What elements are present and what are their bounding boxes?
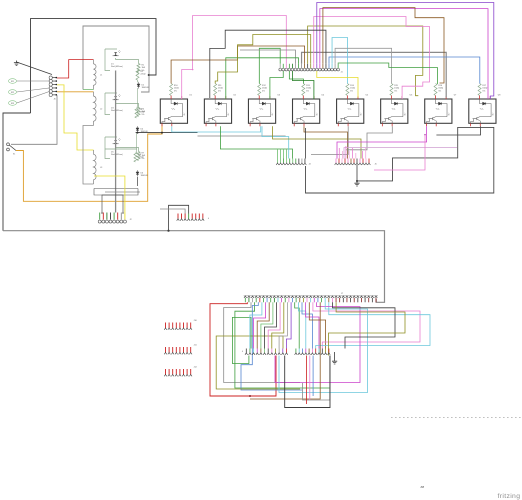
svg-text:5%: 5% <box>438 90 441 92</box>
svg-text:220Ω: 220Ω <box>140 112 145 114</box>
svg-text:R10: R10 <box>174 85 179 87</box>
wire gray-mid <box>311 126 348 154</box>
svg-text:S1: S1 <box>13 154 15 156</box>
wire be4 brown <box>309 302 325 348</box>
wire olive-mid <box>273 126 362 158</box>
junction bus1 <box>137 132 139 134</box>
wire j1-p4 dgreen dn <box>292 71 314 99</box>
pin-header J4 10-pin <box>276 159 306 166</box>
wire ir3-conn <box>17 91 50 103</box>
wire greenbundle-1 <box>280 149 282 159</box>
svg-text:R16: R16 <box>438 85 443 87</box>
svg-text:5%: 5% <box>306 90 309 92</box>
svg-text:U5: U5 <box>366 95 369 97</box>
svg-text:150Ω: 150Ω <box>482 88 487 90</box>
wire j1-p18 gray hk <box>335 48 392 83</box>
svg-text:J5: J5 <box>375 164 378 166</box>
wire bd1 mag <box>254 302 266 348</box>
diode D2 <box>137 82 140 88</box>
wire j1-p12 purple <box>317 3 494 100</box>
wire be7 mag2 <box>275 302 360 382</box>
wire j1-p7 gray long <box>302 52 447 97</box>
wire j1-p16 blue <box>329 57 480 84</box>
wire j1-p0 green <box>259 48 280 83</box>
wire bx-pink <box>309 356 311 401</box>
svg-text:L3: L3 <box>100 167 103 169</box>
wire pinkbundle-0 <box>338 148 340 159</box>
wire j3-feed2 <box>160 209 185 214</box>
resistor R13 150 <box>302 84 312 96</box>
junction bt-red <box>249 395 251 397</box>
wire cyan-under <box>172 126 261 132</box>
wire j2-box-top <box>94 188 138 190</box>
svg-text:J11: J11 <box>194 345 198 347</box>
svg-text:R7: R7 <box>142 153 145 155</box>
pin-header J9 11-pin <box>295 349 331 355</box>
junction inner-gray stage1 <box>148 74 150 76</box>
junction on long-bus <box>167 230 169 232</box>
pin-header J12 8-pin <box>164 369 192 376</box>
svg-text:IR2: IR2 <box>11 92 14 94</box>
resistor R2 220 <box>136 69 139 80</box>
svg-text:R17: R17 <box>482 85 487 87</box>
wire pinkbundle-5 <box>355 153 357 159</box>
pin-header J1 20-pin <box>279 64 340 71</box>
optocoupler U4 <box>293 96 320 127</box>
svg-text:J12: J12 <box>194 367 198 369</box>
svg-text:R15: R15 <box>394 85 399 87</box>
wire bd0 cyan <box>250 302 262 348</box>
resistor R8 220 <box>134 152 137 162</box>
wire j1-p13 magenta <box>320 9 488 99</box>
svg-text:Red (633nm): Red (633nm) <box>111 154 123 156</box>
svg-text:D3: D3 <box>111 108 114 110</box>
svg-text:L2: L2 <box>100 109 103 111</box>
wire pinkbundle-6 <box>361 151 363 159</box>
wire j1-p11 pink2 <box>314 17 430 100</box>
wire bus-light <box>198 135 286 137</box>
wire j9-gnd <box>334 352 336 359</box>
svg-text:R1: R1 <box>142 65 145 67</box>
wire bt-green2 <box>232 317 251 363</box>
svg-text:5%: 5% <box>218 90 221 92</box>
svg-text:D1: D1 <box>111 64 114 66</box>
wire stage-feeder <box>115 71 117 213</box>
svg-text:150Ω: 150Ω <box>438 88 443 90</box>
wire be2 blue <box>302 302 312 348</box>
svg-text:817: 817 <box>272 113 274 116</box>
diode D6 <box>136 170 139 176</box>
svg-text:J4: J4 <box>309 164 312 166</box>
wire bd2 brown <box>257 302 269 348</box>
inductor L2 <box>94 92 97 126</box>
wire greenbundle-2 <box>283 149 285 159</box>
svg-text:1N4148: 1N4148 <box>141 175 149 177</box>
wire be8 cyan3 <box>279 302 368 392</box>
svg-text:150Ω: 150Ω <box>350 88 355 90</box>
wire ir1-conn <box>17 80 50 82</box>
wire greenbundle-3 <box>286 149 288 159</box>
ground GND2 <box>354 181 359 186</box>
svg-text:220Ω: 220Ω <box>141 74 146 76</box>
wire j1-p15 black st <box>210 30 326 98</box>
resistor R12 150 <box>258 84 268 96</box>
wire stage-col <box>137 88 139 107</box>
ground GND3 <box>332 359 337 364</box>
svg-text:U1: U1 <box>189 95 192 97</box>
svg-text:5%: 5% <box>482 90 485 92</box>
svg-text:U3: U3 <box>277 95 280 97</box>
svg-text:fritzing: fritzing <box>498 493 521 500</box>
svg-text:817: 817 <box>404 113 406 116</box>
svg-text:R14: R14 <box>350 85 355 87</box>
wire ir2-conn <box>17 88 50 92</box>
wire orange-long <box>16 123 162 201</box>
switch SW1 <box>7 143 10 146</box>
wire pinkbundle-4 <box>352 148 354 159</box>
wire j1-p1 green dn <box>270 71 283 99</box>
wire j1-p14 brown2 <box>323 8 444 83</box>
wire j1-p10 olive <box>215 35 311 84</box>
wire gnd1-to-connector <box>17 62 53 75</box>
wire yellow-L3 <box>57 85 94 150</box>
wire bt-olive <box>216 336 300 389</box>
svg-text:150Ω: 150Ω <box>262 88 267 90</box>
wire j1-p5 gray r2 <box>240 50 295 64</box>
svg-text:D5: D5 <box>111 152 114 154</box>
wire j3-feed1 <box>169 205 189 230</box>
wire j1-p2 pink big <box>182 16 287 100</box>
svg-text:IR3: IR3 <box>11 103 14 105</box>
connector J6 6-pin <box>49 76 57 97</box>
svg-text:Red (633nm): Red (633nm) <box>111 66 123 68</box>
wire lavender-147 <box>344 148 457 159</box>
wire green-L1-bottom <box>83 89 94 91</box>
pin-header J8 12-pin <box>245 349 288 355</box>
wire bd6 olive <box>272 302 284 348</box>
wire net-inner-gray <box>83 26 149 92</box>
ground GND1 <box>14 61 19 66</box>
wire j1-p9 olive2 <box>308 26 423 96</box>
diode D4 <box>136 126 139 132</box>
pin-header J3 8-pin <box>177 214 204 221</box>
wire bt-red <box>210 302 276 396</box>
wire pinkbundle-7 <box>365 148 367 159</box>
svg-text:R11: R11 <box>218 85 222 87</box>
svg-text:D4: D4 <box>141 129 144 131</box>
wire bx-blue <box>312 356 314 397</box>
resistor R15 150 <box>390 84 400 96</box>
resistor R11 150 <box>214 84 224 96</box>
svg-text:J6: J6 <box>54 99 57 101</box>
svg-text:U2: U2 <box>233 95 236 97</box>
svg-text:817: 817 <box>316 113 318 116</box>
LED IR2 <box>9 90 17 95</box>
resistor R10 150 <box>170 84 180 96</box>
wire d6-bus <box>137 177 139 186</box>
pin-header J10 8-pin <box>164 323 192 330</box>
optocoupler U7 <box>425 96 452 127</box>
svg-text:5%: 5% <box>174 90 177 92</box>
wire be11 black <box>333 302 396 348</box>
wire pinkbundle-2 <box>345 146 347 159</box>
wire pinkbundle-3 <box>348 151 350 159</box>
LED IR1 <box>9 79 17 84</box>
wire bt-green <box>235 302 330 388</box>
wire j1-p8 brown st <box>171 46 305 84</box>
inductor L3 <box>94 150 97 184</box>
wire j7-busline <box>244 295 378 297</box>
svg-text:817: 817 <box>184 113 186 116</box>
wire bus-dark <box>136 132 198 134</box>
wire j5-gnd <box>356 165 358 181</box>
wire j2-yellow <box>94 176 125 213</box>
svg-text:J1: J1 <box>341 72 344 74</box>
svg-text:IR1: IR1 <box>11 81 14 83</box>
wire be0 green <box>295 302 300 348</box>
wire j2-box-l <box>94 189 138 196</box>
svg-text:817: 817 <box>449 113 451 116</box>
wire brown-mid <box>304 126 348 158</box>
resistor R16 150 <box>434 84 444 96</box>
wire net-left-edge <box>3 113 31 231</box>
wire j2-box <box>102 195 123 213</box>
pin-header J7 37-pin <box>244 296 377 302</box>
junction bus2 <box>161 132 163 134</box>
resistor R5 220 <box>135 107 138 118</box>
arrow j2-p2 <box>101 212 103 214</box>
svg-text:817: 817 <box>228 113 230 116</box>
svg-text:817: 817 <box>493 113 495 116</box>
pin-header J11 8-pin <box>164 347 192 354</box>
LED D3 stage2 <box>105 93 146 117</box>
wire black-mid <box>436 126 480 135</box>
wire bd3 green <box>261 302 273 348</box>
svg-text:▲: ▲ <box>208 217 210 220</box>
wire be9 brown2 <box>250 302 320 399</box>
wire black-vert-a <box>305 128 307 159</box>
svg-text:D2: D2 <box>142 85 145 87</box>
junction j5-gnd <box>356 180 358 182</box>
wire long-bus <box>3 231 385 303</box>
wire pinkbundle-1 <box>342 151 344 159</box>
wire bd8 purple <box>286 302 291 348</box>
wire greenbundle-0 <box>277 149 279 159</box>
optocoupler U8 <box>469 96 496 127</box>
wire red-L1 <box>57 60 94 78</box>
pin-header J5 12-pin <box>335 159 371 166</box>
wire bt-gray <box>224 302 300 382</box>
wire bt-blackbox <box>285 356 330 408</box>
wire net-top-outer <box>31 19 157 113</box>
wire black-long-193 <box>306 127 494 193</box>
svg-text:817: 817 <box>360 113 362 116</box>
svg-text:Red (633nm): Red (633nm) <box>111 110 123 112</box>
wire gray-L2L3-bottom <box>83 126 94 185</box>
wire j1-p17 cyan <box>332 38 347 84</box>
wire pin6-switch <box>11 95 57 144</box>
svg-text:5%: 5% <box>394 90 397 92</box>
wire be1 cyan <box>298 302 305 348</box>
svg-text:4: 4 <box>242 351 244 353</box>
wire bd4 black <box>265 302 277 348</box>
wire j1-p6 green p2 <box>226 58 299 99</box>
svg-text:150Ω: 150Ω <box>174 88 179 90</box>
LED D5 stage3 <box>105 137 146 161</box>
svg-text:5%: 5% <box>350 90 353 92</box>
pin-header J2 8-pin <box>98 213 126 224</box>
optocoupler U6 <box>381 96 408 127</box>
optocoupler U2 <box>204 96 231 127</box>
LED D1 stage1 <box>105 49 146 73</box>
wire cyan-mid2 <box>262 126 289 158</box>
wire bt-blue <box>241 302 302 390</box>
svg-text:R13: R13 <box>306 85 311 87</box>
arrow j2-p7 <box>122 212 124 214</box>
svg-text:J7: J7 <box>341 293 344 295</box>
svg-text:150Ω: 150Ω <box>218 88 223 90</box>
wire pink-mid <box>374 135 425 170</box>
wire be10 gray2 <box>303 356 330 401</box>
wire orange-L2 <box>57 91 94 93</box>
resistor R14 150 <box>346 84 356 96</box>
wire be6 cyan2 <box>316 302 430 348</box>
svg-text:J10: J10 <box>194 320 198 322</box>
wire gray-mid2 <box>346 126 392 150</box>
svg-text:5%: 5% <box>262 90 265 92</box>
svg-text:150Ω: 150Ω <box>306 88 311 90</box>
svg-text:J2: J2 <box>130 219 133 221</box>
LED IR3 <box>9 101 17 106</box>
wire magenta-mid <box>337 126 427 158</box>
wire stage3-right1 <box>105 148 137 150</box>
wire be12 olive <box>329 302 406 355</box>
svg-text:U6: U6 <box>410 95 413 97</box>
wire j1-p19 green2 <box>338 63 437 84</box>
separator dotted <box>391 417 522 419</box>
wire bd5 pink <box>268 302 280 348</box>
junction pink-corner <box>192 69 194 71</box>
svg-text:5%: 5% <box>142 114 145 116</box>
optocoupler U5 <box>337 96 364 127</box>
wire j1-p3 green dn <box>289 71 303 84</box>
wire bd7 gray <box>279 302 287 348</box>
resistor R17 150 <box>478 84 488 96</box>
svg-text:L1: L1 <box>100 75 103 77</box>
wire green-mid <box>220 126 292 158</box>
optocoupler U3 <box>248 96 275 127</box>
wire yellow dn <box>317 71 358 98</box>
wire stage3-right2 <box>105 191 140 193</box>
svg-text:ar: ar <box>421 484 425 489</box>
svg-text:U4: U4 <box>322 95 325 97</box>
svg-text:1kΩ: 1kΩ <box>142 67 146 69</box>
svg-text:U8: U8 <box>498 95 501 97</box>
wire be3 mag <box>306 302 319 348</box>
wire r2-d2 <box>138 80 139 82</box>
inductor L1 <box>94 60 97 90</box>
svg-text:1N4148: 1N4148 <box>142 87 150 89</box>
wire stage-col2 <box>136 133 138 152</box>
junction magenta-mid <box>424 134 426 136</box>
svg-text:150Ω: 150Ω <box>394 88 399 90</box>
optocoupler U1 <box>160 96 187 127</box>
svg-text:R12: R12 <box>262 85 267 87</box>
wire bx-red <box>306 356 308 405</box>
wire be5 pink <box>313 302 420 348</box>
svg-text:U7: U7 <box>454 95 457 97</box>
svg-text:220Ω: 220Ω <box>139 157 144 159</box>
svg-text:D6: D6 <box>141 173 144 175</box>
